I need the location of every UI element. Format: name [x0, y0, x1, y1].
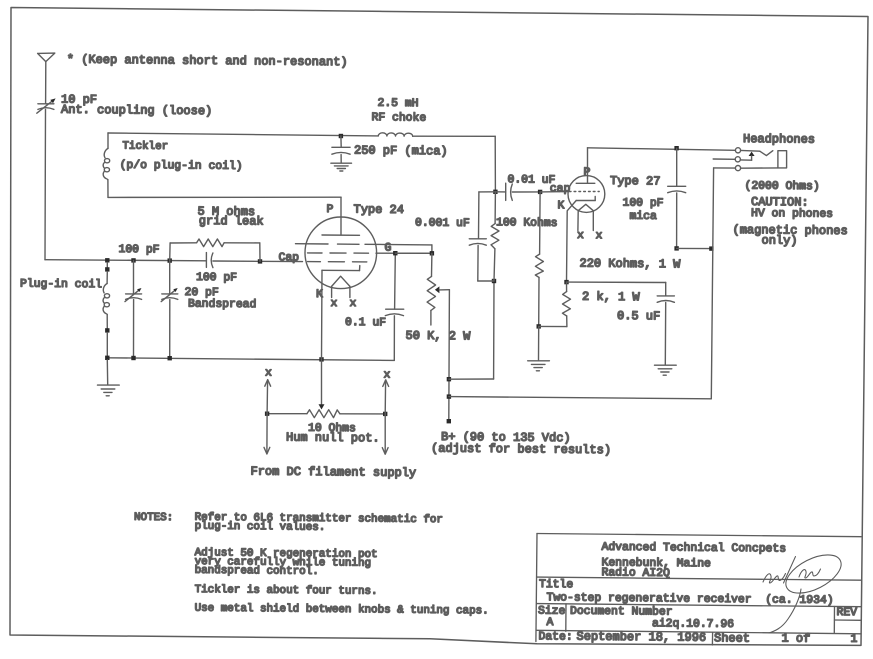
capacitor C10 0.5 uF: [567, 282, 675, 365]
svg-text:September 18, 1996: September 18, 1996: [576, 630, 706, 645]
control grid row of V1: [308, 261, 367, 263]
svg-text:50 K, 2 W: 50 K, 2 W: [405, 329, 471, 344]
svg-text:Date:: Date:: [538, 631, 572, 643]
wire to V2 grid: [540, 191, 568, 193]
wire screen node to pot: [395, 252, 432, 254]
junction plate node V1: [493, 190, 497, 194]
svg-text:Document Number: Document Number: [570, 606, 673, 619]
junction grid leak right end: [258, 259, 262, 263]
svg-text:2.5 mH: 2.5 mH: [377, 98, 418, 110]
grid row 2 of V1 with G node wire: [308, 245, 432, 253]
svg-text:Hum null pot.: Hum null pot.: [286, 431, 380, 446]
potentiometer R2 50 K 2 W: [427, 253, 449, 421]
junction pot wiper line / B+ bus: [447, 394, 451, 398]
wire 100K bottom to wiper line: [449, 281, 494, 379]
svg-text:Advanced Technical Concpets: Advanced Technical Concpets: [601, 542, 786, 556]
svg-text:(2000 Ohms): (2000 Ohms): [744, 181, 819, 194]
svg-text:x: x: [577, 230, 584, 242]
svg-text:Type 24: Type 24: [353, 203, 404, 217]
ground below 0.5 uF: [655, 365, 677, 375]
junction grid line / plug-in coil: [105, 258, 109, 262]
variable capacitor C2 tuning 100 pF: [125, 260, 142, 358]
svg-text:K: K: [557, 200, 564, 212]
svg-text:HV on phones: HV on phones: [751, 208, 833, 221]
ground below 220K: [528, 326, 550, 370]
svg-text:Bandspread: Bandspread: [188, 299, 256, 312]
svg-text:plug-in coil values.: plug-in coil values.: [195, 521, 326, 534]
filament arrow down left: [264, 414, 270, 454]
svg-text:x: x: [349, 298, 356, 310]
wire tickler bottom to tube V1 plate: [108, 197, 341, 235]
title block: [536, 534, 861, 646]
capacitor C9 100 pF mica: [668, 148, 686, 248]
junction bus / plug-in coil: [105, 356, 109, 360]
junction grid line / tuning cap: [131, 258, 135, 262]
svg-text:Cap: Cap: [278, 252, 299, 264]
hum null pot R6 10 Ohms: [267, 359, 385, 417]
svg-text:x: x: [595, 230, 602, 242]
signature scrawl: [763, 547, 847, 633]
svg-text:(p/o plug-in coil): (p/o plug-in coil): [120, 160, 243, 173]
junction 0.01 out / 220K top: [538, 190, 542, 194]
wire mica bottom to return line: [677, 247, 712, 249]
svg-text:2 k, 1 W: 2 k, 1 W: [582, 290, 641, 305]
junction V2 cathode node: [564, 280, 568, 284]
resistor R1 5 M grid leak loop: [170, 239, 260, 261]
capacitor C5 100 pF grid series: [206, 253, 213, 268]
svg-text:Tickler is about four turns.: Tickler is about four turns.: [195, 584, 378, 598]
wire V2 plate to headphone jack: [588, 148, 736, 151]
wire tickler top / RF choke line: [108, 133, 495, 136]
wire ground node to 2k bottom: [539, 325, 567, 327]
antenna ANT1: [38, 53, 55, 62]
terminal B+: [447, 419, 451, 423]
svg-text:Plug-in coil: Plug-in coil: [20, 279, 102, 292]
svg-text:100 Kohms: 100 Kohms: [496, 217, 558, 230]
svg-text:Radio AI2Q: Radio AI2Q: [601, 567, 670, 580]
svg-text:A: A: [546, 617, 553, 629]
junction bus / bandspread cap: [168, 356, 172, 360]
svg-text:100 pF: 100 pF: [196, 272, 237, 284]
capacitor C8 0.01 uF coupling: [495, 183, 540, 200]
svg-text:* (Keep antenna short and non-: * (Keep antenna short and non-resonant): [67, 53, 348, 70]
junction screen node at pot top: [430, 251, 434, 255]
svg-text:REV: REV: [836, 607, 857, 619]
svg-text:100 pF: 100 pF: [118, 244, 159, 256]
tickler coil L1 left side: [103, 133, 110, 197]
svg-text:ai2q.10.7.96: ai2q.10.7.96: [652, 618, 734, 631]
svg-text:250 pF (mica): 250 pF (mica): [354, 144, 448, 159]
heater of V1: [332, 276, 350, 297]
svg-text:x: x: [383, 370, 390, 382]
screen grid row of V1: [296, 244, 432, 245]
plug-in coil L3: [103, 262, 110, 357]
headphone jack J1: [713, 148, 740, 171]
capacitor C4 250 pF mica: [332, 136, 350, 163]
cathode of V1: [322, 266, 360, 271]
svg-text:(adjust for best results): (adjust for best results): [431, 442, 611, 458]
junction 220K bottom ground node: [537, 324, 541, 328]
svg-text:Headphones: Headphones: [743, 132, 815, 147]
svg-text:bandspread control.: bandspread control.: [195, 565, 319, 578]
junction hum pot left: [265, 412, 269, 416]
svg-text:100 pF: 100 pF: [622, 198, 663, 210]
heater of V2: [578, 204, 593, 230]
junction plate node / 100 pF mica: [674, 146, 678, 150]
variable capacitor C3 bandspread 20 pF: [161, 261, 178, 359]
wire antenna to coupling cap: [45, 62, 47, 104]
svg-text:G: G: [384, 243, 391, 255]
svg-text:only): only): [761, 234, 797, 248]
svg-text:0.01 uF: 0.01 uF: [507, 174, 555, 186]
cathode of V2: [567, 197, 596, 283]
svg-text:0.1 uF: 0.1 uF: [345, 317, 386, 329]
svg-text:Tickler: Tickler: [122, 141, 168, 153]
svg-text:Type 27: Type 27: [610, 174, 661, 188]
capacitor C6 0.1 uF: [385, 253, 403, 360]
junction pot wiper line / 100K bottom: [447, 377, 451, 381]
plate of V1: [322, 234, 360, 236]
headphone plug and phones: [741, 150, 787, 168]
inductor L2 2.5 mH RF choke: [378, 133, 412, 136]
svg-text:20 pF: 20 pF: [184, 287, 218, 299]
junction bus / cathode lead: [319, 357, 323, 361]
svg-text:NOTES:: NOTES:: [134, 512, 173, 524]
ground below 250 pF: [331, 163, 352, 171]
svg-text:0.001 uF: 0.001 uF: [415, 218, 470, 231]
ground below bus left: [98, 360, 120, 396]
resistor R5 2 k 1 W: [562, 282, 570, 327]
junction 0.1uF top: [393, 251, 397, 255]
tube V1 Type 24 envelope: [305, 217, 377, 289]
title block text company: [538, 542, 858, 646]
svg-text:1: 1: [850, 634, 857, 646]
resistor R3 100 Kohms: [491, 192, 499, 281]
wire series cap to grid cap of V1: [213, 260, 303, 263]
svg-text:1 of: 1 of: [781, 632, 810, 646]
capacitor C7 0.001 uF: [469, 192, 495, 281]
filament arrow down right: [382, 414, 388, 454]
control grid dotted row of V2: [569, 191, 599, 193]
svg-text:0.5 uF: 0.5 uF: [617, 309, 660, 323]
junction on return line: [709, 246, 713, 250]
wire main grid line from antenna: [45, 260, 206, 261]
svg-text:P: P: [326, 204, 333, 216]
svg-text:grid leak: grid leak: [199, 214, 264, 229]
junction on choke line at 250pF tap: [339, 134, 343, 138]
wire coupling cap down to grid line: [44, 109, 47, 259]
junction hum pot right: [383, 412, 387, 416]
filament arrow up left: [265, 380, 271, 414]
svg-text:mica: mica: [629, 211, 657, 223]
wire V1 cathode down to bus: [321, 270, 324, 359]
svg-text:Ant. coupling (loose): Ant. coupling (loose): [61, 103, 212, 118]
svg-text:220 Kohms, 1 W: 220 Kohms, 1 W: [579, 257, 681, 272]
wire ground bus: [107, 358, 394, 361]
svg-text:Sheet: Sheet: [714, 631, 750, 645]
junction mica bottom: [674, 246, 678, 250]
svg-text:x: x: [265, 368, 272, 380]
svg-text:From DC filament supply: From DC filament supply: [250, 465, 416, 481]
svg-text:RF choke: RF choke: [371, 112, 426, 125]
svg-text:Size: Size: [538, 606, 566, 618]
notes text block: [134, 512, 489, 618]
svg-text:x: x: [330, 298, 337, 310]
junction bus / tuning cap: [131, 356, 135, 360]
svg-text:Title: Title: [539, 579, 573, 591]
resistor R4 220 Kohms: [535, 192, 543, 327]
filament arrow up right: [383, 380, 389, 414]
plate of V2: [576, 148, 595, 184]
junction 0.001 bottom node: [492, 279, 496, 283]
wire B+ return from jack sleeve: [449, 168, 714, 399]
variable capacitor C1 10 pF ant coupling: [37, 98, 56, 113]
tube V2 Type 27 envelope: [568, 176, 605, 213]
junction grid line / bandspread cap: [168, 258, 172, 262]
wire choke line corner down to plate node of V1: [494, 136, 496, 192]
